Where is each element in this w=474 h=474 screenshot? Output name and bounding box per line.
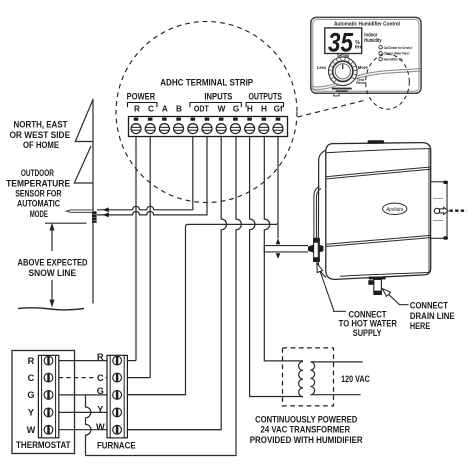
svg-text:W: W: [27, 425, 36, 435]
svg-text:C: C: [28, 373, 35, 383]
svg-text:More: More: [358, 65, 368, 71]
svg-text:W: W: [218, 105, 226, 114]
svg-text:H: H: [247, 105, 253, 114]
svg-text:ADHC TERMINAL STRIP: ADHC TERMINAL STRIP: [160, 78, 254, 89]
svg-text:OF HOME: OF HOME: [23, 140, 60, 151]
svg-text:OUTPUTS: OUTPUTS: [248, 92, 282, 102]
svg-text:R: R: [134, 105, 140, 114]
svg-text:Less: Less: [317, 65, 326, 71]
svg-text:A: A: [162, 105, 168, 114]
svg-text:H: H: [261, 105, 267, 114]
svg-text:B: B: [176, 105, 182, 114]
svg-text:G: G: [233, 105, 239, 114]
svg-text:Automatic Humidifier Control: Automatic Humidifier Control: [334, 21, 401, 27]
svg-text:Call Dealer for Service: Call Dealer for Service: [384, 45, 413, 50]
svg-text:FURNACE: FURNACE: [97, 440, 136, 451]
svg-text:Y: Y: [28, 408, 34, 418]
svg-text:G: G: [97, 386, 104, 396]
svg-text:G: G: [27, 390, 34, 400]
svg-text:Change Water Panel: Change Water Panel: [384, 51, 410, 56]
svg-text:120 VAC: 120 VAC: [341, 374, 370, 385]
svg-text:Aprilaire: Aprilaire: [385, 207, 403, 213]
svg-text:C: C: [97, 373, 104, 383]
svg-text:SUPPLY: SUPPLY: [353, 328, 382, 339]
svg-text:ODT: ODT: [194, 104, 209, 113]
svg-text:MODE: MODE: [30, 209, 49, 220]
svg-text:INPUTS: INPUTS: [204, 92, 232, 102]
svg-text:Y: Y: [97, 404, 103, 414]
svg-text:RH: RH: [355, 45, 361, 50]
svg-text:W: W: [96, 422, 105, 432]
svg-text:HERE: HERE: [410, 321, 431, 332]
svg-text:POWER: POWER: [127, 92, 156, 102]
svg-text:R: R: [28, 356, 35, 366]
svg-text:PROVIDED WITH HUMIDIFIER: PROVIDED WITH HUMIDIFIER: [250, 435, 363, 446]
svg-text:SNOW LINE: SNOW LINE: [29, 268, 77, 279]
svg-text:Gf: Gf: [274, 105, 283, 114]
svg-text:CONNECT: CONNECT: [410, 300, 448, 311]
svg-text:R: R: [97, 352, 104, 362]
svg-text:C: C: [148, 105, 154, 114]
svg-text:Humidity: Humidity: [364, 38, 381, 44]
svg-text:THERMOSTAT: THERMOSTAT: [16, 440, 71, 451]
